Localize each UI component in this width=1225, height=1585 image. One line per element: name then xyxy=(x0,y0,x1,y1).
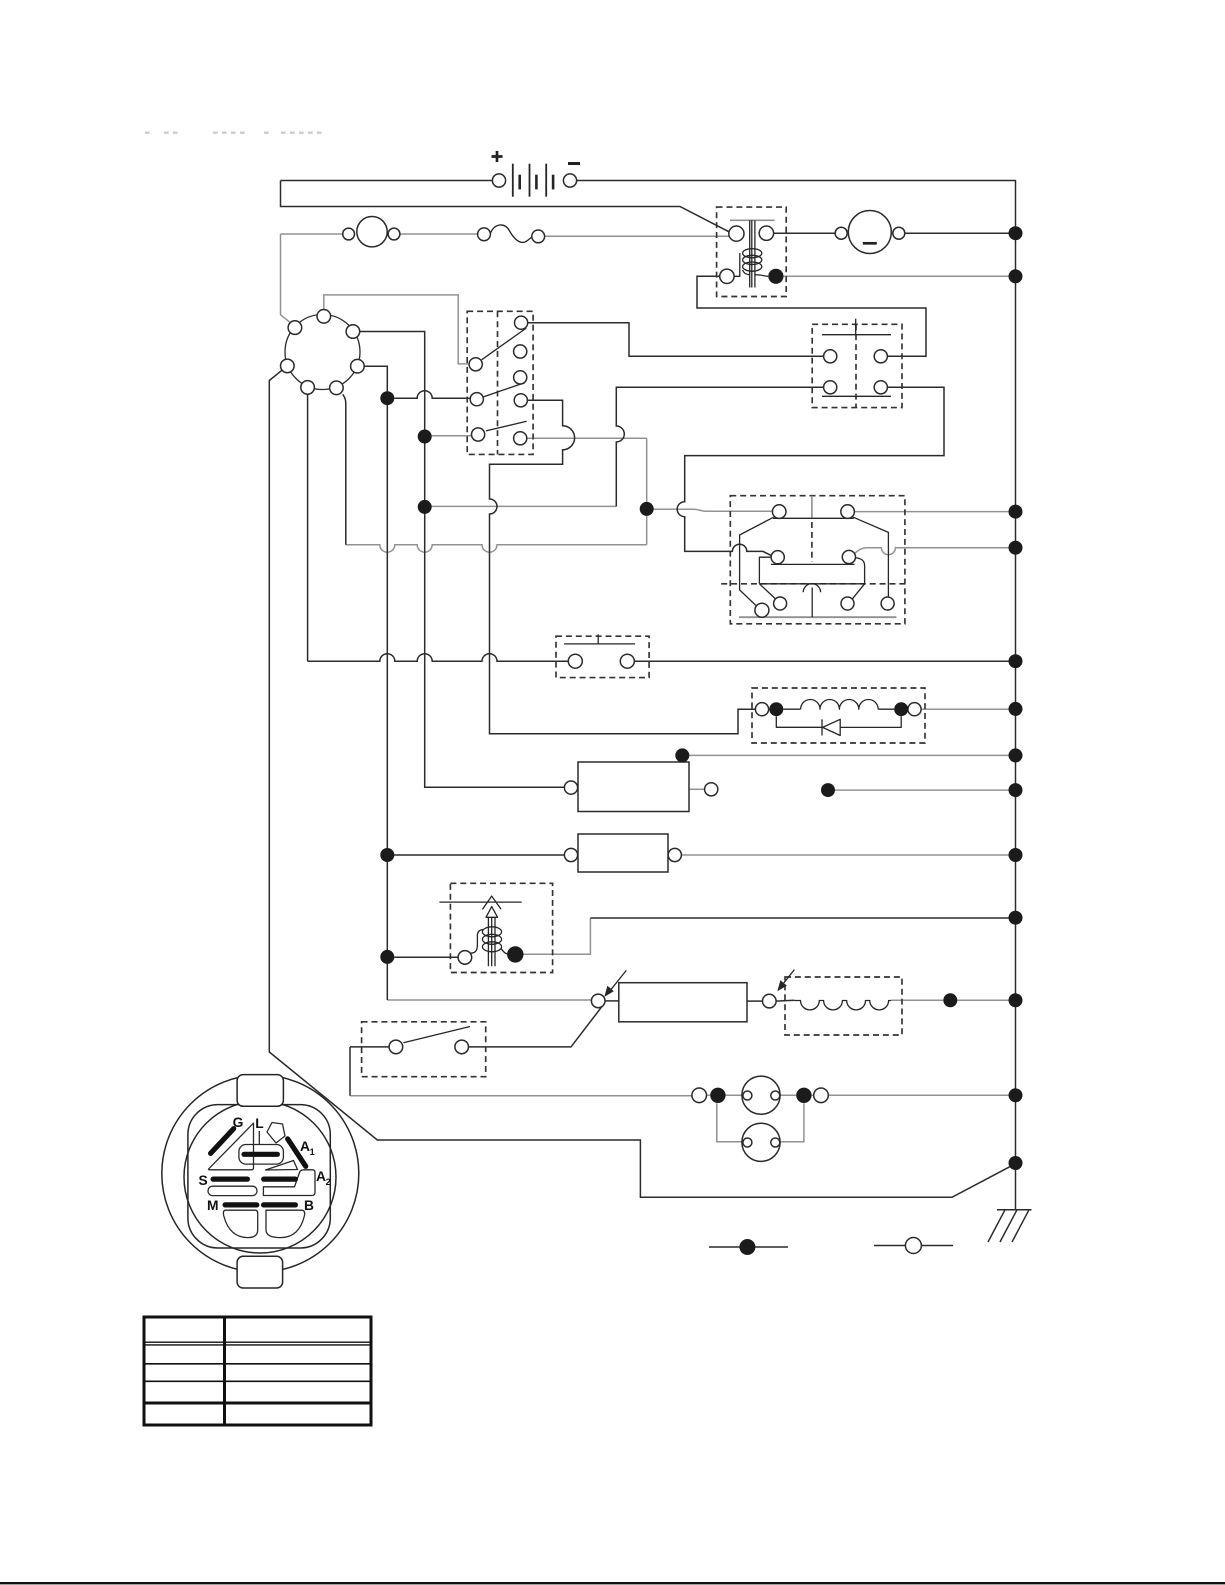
svg-text:A: A xyxy=(300,1139,310,1154)
svg-text:L: L xyxy=(255,1116,263,1131)
svg-text:1: 1 xyxy=(310,1147,315,1157)
svg-text:S: S xyxy=(199,1173,208,1188)
svg-text:2: 2 xyxy=(326,1177,331,1187)
svg-text:M: M xyxy=(207,1198,219,1213)
svg-text:B: B xyxy=(304,1198,314,1213)
svg-text:G: G xyxy=(233,1115,244,1130)
svg-text:A: A xyxy=(316,1169,326,1184)
